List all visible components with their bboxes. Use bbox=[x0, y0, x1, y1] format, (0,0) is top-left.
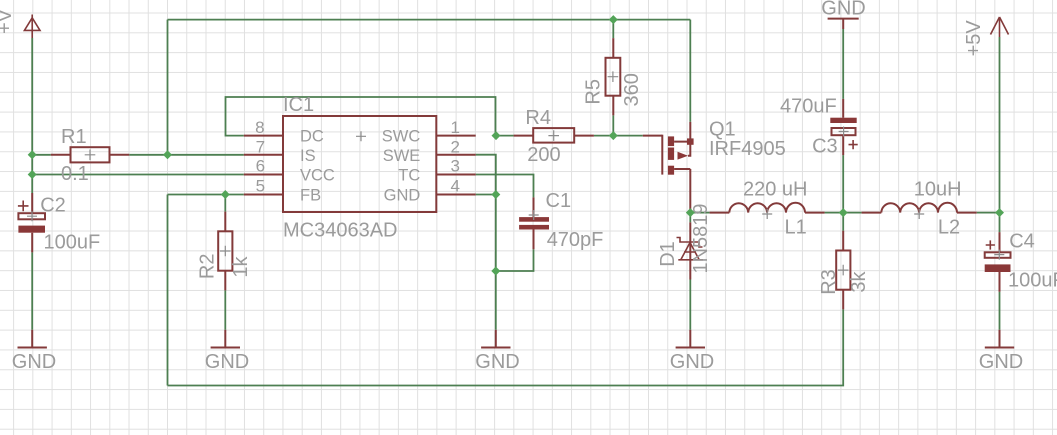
svg-text:3: 3 bbox=[451, 157, 460, 176]
svg-text:VCC: VCC bbox=[300, 167, 335, 185]
ground 4 (D1) bbox=[676, 330, 705, 348]
svg-text:TC: TC bbox=[398, 167, 420, 185]
svg-text:1k: 1k bbox=[230, 255, 252, 277]
junction R5 bottom / gate bbox=[609, 131, 618, 140]
wire VCC row bbox=[32, 174, 244, 176]
inductor L2 bbox=[862, 203, 977, 219]
wire R2 bottom green bbox=[224, 290, 226, 329]
wire Q1 source drop (green part) bbox=[689, 20, 691, 122]
svg-text:10uH: 10uH bbox=[914, 179, 962, 201]
svg-text:DC: DC bbox=[300, 128, 324, 146]
wire L2 to +5V node bbox=[977, 212, 1000, 214]
inductor L1 bbox=[710, 203, 825, 219]
wire D1 cathode green bbox=[689, 213, 691, 223]
supply +5V symbol bbox=[991, 17, 1009, 37]
wire +5V rail vertical bbox=[999, 37, 1001, 232]
svg-text:GND: GND bbox=[821, 0, 865, 20]
wire C2 bottom to ground bbox=[31, 252, 33, 329]
svg-text:L2: L2 bbox=[938, 217, 960, 239]
wire FB vertical down bbox=[167, 195, 169, 386]
ground 1 (C2) bbox=[18, 330, 47, 348]
junction SWE-GND pin bbox=[491, 190, 500, 199]
svg-text:GND: GND bbox=[384, 187, 421, 205]
capacitor C1 bbox=[519, 197, 549, 249]
svg-text:D1: D1 bbox=[657, 241, 679, 267]
junction IS-R1 bbox=[28, 150, 37, 159]
wire SWC junction to R4 bbox=[496, 135, 514, 137]
resistor R5 bbox=[606, 38, 621, 115]
svg-text:R1: R1 bbox=[61, 126, 87, 148]
svg-text:GND: GND bbox=[205, 351, 249, 373]
svg-text:470uF: 470uF bbox=[780, 96, 837, 118]
svg-text:5: 5 bbox=[256, 177, 265, 196]
wire TC pin3 to C1 top bbox=[476, 175, 534, 198]
svg-text:GND: GND bbox=[979, 351, 1023, 373]
wire vertical top-rail to IS junction bbox=[167, 20, 169, 155]
wire DC(pin8) to SWC(pin1) top route bbox=[226, 97, 496, 136]
svg-text:SWE: SWE bbox=[383, 147, 421, 165]
wire pin4 green segment bbox=[476, 194, 496, 196]
wire top rail from IS node to Q1 source bbox=[168, 19, 691, 21]
svg-text:FB: FB bbox=[300, 187, 321, 205]
wire top GND to C3 bbox=[842, 29, 844, 99]
diode D1 1N5819 bbox=[677, 222, 704, 279]
ground 5 (C4) bbox=[985, 330, 1014, 348]
wire R5 top green bbox=[612, 20, 614, 38]
svg-text:R2: R2 bbox=[197, 254, 219, 280]
wire R4 to gate junction bbox=[594, 135, 613, 137]
svg-text:R3: R3 bbox=[818, 269, 840, 295]
resistor R3 bbox=[836, 231, 850, 310]
wire node to L1 bbox=[690, 212, 709, 214]
svg-text:3k: 3k bbox=[848, 270, 870, 292]
svg-text:0.1: 0.1 bbox=[61, 163, 89, 185]
wire R5 bottom green bbox=[612, 115, 614, 135]
svg-text:1: 1 bbox=[451, 118, 460, 137]
svg-text:IRF4905: IRF4905 bbox=[709, 138, 786, 160]
wire mid node down to R3 bbox=[842, 213, 844, 231]
svg-text:470pF: 470pF bbox=[547, 229, 604, 251]
ground top (above C3) bbox=[828, 19, 859, 29]
junction D1-L1 bbox=[686, 208, 695, 217]
wire C1 bottom to GND net bbox=[496, 249, 534, 271]
svg-text:220 uH: 220 uH bbox=[743, 179, 808, 201]
junction +5V-C4 bbox=[995, 208, 1004, 217]
capacitor C4 bbox=[985, 232, 1011, 292]
capacitor C2 bbox=[18, 193, 45, 252]
svg-text:360: 360 bbox=[621, 73, 643, 106]
svg-text:100uF: 100uF bbox=[1008, 270, 1057, 292]
wire FB row bbox=[168, 194, 244, 196]
wire L1 to mid node bbox=[825, 212, 844, 214]
svg-text:L1: L1 bbox=[785, 217, 807, 239]
wire GND net vertical bbox=[495, 195, 497, 330]
junction FB-R2 bbox=[221, 190, 230, 199]
svg-text:4: 4 bbox=[451, 177, 460, 196]
junction C1-GND bbox=[491, 267, 500, 276]
wire R1 right to pin7 bbox=[129, 154, 244, 156]
svg-text:C3: C3 bbox=[812, 136, 838, 158]
wire SWE pin2 to GND pin4 bbox=[476, 155, 496, 195]
wire feedback bottom run bbox=[168, 309, 844, 385]
junction R5 top bbox=[609, 15, 618, 24]
svg-text:GND: GND bbox=[670, 351, 714, 373]
svg-text:+V: +V bbox=[0, 8, 16, 34]
ground 2 (R2) bbox=[211, 330, 240, 348]
wire mid node to L2 bbox=[843, 212, 861, 214]
svg-text:200: 200 bbox=[527, 144, 560, 166]
resistor R2 bbox=[218, 212, 232, 291]
wire C4 bottom to ground bbox=[999, 292, 1001, 330]
svg-text:6: 6 bbox=[256, 157, 265, 176]
svg-text:C1: C1 bbox=[546, 190, 572, 212]
junction SWC bbox=[492, 131, 501, 140]
wire gate junction to Q1 gate bbox=[613, 135, 643, 137]
capacitor C3 bbox=[830, 99, 857, 155]
junction VCC rail bbox=[28, 170, 37, 179]
svg-text:R5: R5 bbox=[583, 79, 605, 105]
svg-text:IS: IS bbox=[300, 147, 316, 165]
svg-text:GND: GND bbox=[475, 351, 519, 373]
svg-text:2: 2 bbox=[451, 138, 460, 157]
junction IS node bbox=[163, 150, 172, 159]
svg-text:C4: C4 bbox=[1009, 231, 1035, 253]
resistor R4 bbox=[514, 128, 594, 143]
supply +V symbol bbox=[24, 15, 40, 39]
resistor R1 bbox=[51, 147, 129, 162]
ground 3 (IC) bbox=[481, 330, 510, 348]
svg-text:C2: C2 bbox=[40, 195, 66, 217]
svg-text:7: 7 bbox=[256, 138, 265, 157]
svg-text:SWC: SWC bbox=[382, 128, 421, 146]
svg-text:GND: GND bbox=[12, 351, 56, 373]
svg-text:IC1: IC1 bbox=[283, 94, 314, 116]
wire C3 bottom to mid node bbox=[842, 155, 844, 213]
svg-text:MC34063AD: MC34063AD bbox=[283, 220, 398, 242]
wire R2 top green bbox=[224, 195, 226, 212]
transistor Q1 IRF4905 bbox=[643, 122, 694, 213]
junction L1-L2-R3-C3 bbox=[839, 208, 848, 217]
wire IS node left segment bbox=[32, 154, 51, 156]
svg-text:R4: R4 bbox=[525, 107, 551, 129]
wire +V rail vertical bbox=[31, 38, 33, 193]
svg-text:100uF: 100uF bbox=[44, 232, 101, 254]
IC U1 MC34063AD box bbox=[244, 116, 476, 212]
svg-text:+5V: +5V bbox=[963, 20, 985, 57]
wire D1 anode to ground bbox=[689, 280, 691, 330]
svg-text:8: 8 bbox=[255, 118, 264, 137]
